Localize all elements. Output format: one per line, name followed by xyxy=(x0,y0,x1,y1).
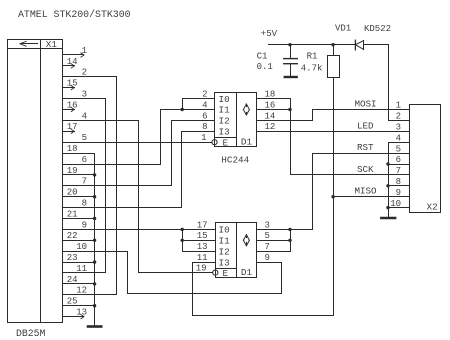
svg-text:22: 22 xyxy=(67,231,78,241)
svg-text:19: 19 xyxy=(196,264,207,274)
svg-text:17: 17 xyxy=(197,220,208,230)
svg-text:15: 15 xyxy=(197,231,208,241)
svg-text:24: 24 xyxy=(67,275,78,285)
svg-text:7: 7 xyxy=(265,242,270,252)
svg-text:8: 8 xyxy=(396,177,401,187)
svg-text:16: 16 xyxy=(265,100,276,110)
svg-text:I0: I0 xyxy=(219,94,230,105)
svg-text:VD1: VD1 xyxy=(335,24,351,34)
svg-text:4: 4 xyxy=(202,100,207,110)
svg-text:20: 20 xyxy=(67,188,78,198)
svg-text:4: 4 xyxy=(396,133,401,143)
svg-text:9: 9 xyxy=(396,188,401,198)
svg-text:I3: I3 xyxy=(219,127,230,138)
svg-text:12: 12 xyxy=(76,286,87,296)
svg-text:KD522: KD522 xyxy=(364,24,391,34)
svg-text:9: 9 xyxy=(82,220,87,230)
svg-text:0.1: 0.1 xyxy=(257,62,273,72)
svg-text:9: 9 xyxy=(265,253,270,263)
svg-text:18: 18 xyxy=(265,90,276,100)
svg-text:7: 7 xyxy=(396,166,401,176)
svg-text:6: 6 xyxy=(82,155,87,165)
svg-text:LED: LED xyxy=(357,120,374,131)
svg-text:1: 1 xyxy=(82,46,87,56)
svg-text:3: 3 xyxy=(82,90,87,100)
svg-text:D1: D1 xyxy=(241,137,253,148)
svg-text:4: 4 xyxy=(82,111,87,121)
svg-text:MISO: MISO xyxy=(354,186,377,197)
svg-text:I2: I2 xyxy=(219,246,230,257)
svg-text:25: 25 xyxy=(67,297,78,307)
svg-text:18: 18 xyxy=(67,144,78,154)
svg-text:21: 21 xyxy=(67,209,78,219)
svg-text:11: 11 xyxy=(76,264,87,274)
svg-text:2: 2 xyxy=(396,112,401,122)
svg-text:19: 19 xyxy=(67,166,78,176)
svg-text:HC244: HC244 xyxy=(221,155,249,166)
svg-text:6: 6 xyxy=(396,155,401,165)
svg-text:16: 16 xyxy=(67,100,78,110)
svg-text:ATMEL STK200/STK300: ATMEL STK200/STK300 xyxy=(18,9,131,20)
svg-text:4.7k: 4.7k xyxy=(301,64,323,74)
svg-text:I3: I3 xyxy=(219,257,230,268)
svg-text:RST: RST xyxy=(357,142,374,153)
svg-text:I2: I2 xyxy=(219,116,230,127)
svg-text:E: E xyxy=(223,137,229,148)
svg-text:DB25M: DB25M xyxy=(16,328,46,339)
svg-text:6: 6 xyxy=(202,111,207,121)
svg-text:5: 5 xyxy=(396,144,401,154)
svg-text:7: 7 xyxy=(82,177,87,187)
svg-text:14: 14 xyxy=(265,111,276,121)
svg-text:3: 3 xyxy=(396,123,401,133)
svg-text:2: 2 xyxy=(82,68,87,78)
svg-text:12: 12 xyxy=(265,122,276,132)
svg-text:I1: I1 xyxy=(219,105,231,116)
svg-text:R1: R1 xyxy=(307,52,318,62)
svg-text:D1: D1 xyxy=(241,267,253,278)
svg-text:13: 13 xyxy=(197,242,208,252)
svg-text:17: 17 xyxy=(67,122,78,132)
svg-text:13: 13 xyxy=(76,308,87,318)
svg-text:11: 11 xyxy=(197,253,208,263)
svg-text:14: 14 xyxy=(67,57,78,67)
svg-text:SCK: SCK xyxy=(357,164,374,175)
svg-text:10: 10 xyxy=(390,199,401,209)
svg-text:+5V: +5V xyxy=(261,29,278,39)
svg-text:5: 5 xyxy=(265,231,270,241)
svg-text:1: 1 xyxy=(201,133,206,143)
svg-text:X1: X1 xyxy=(46,39,58,50)
svg-text:10: 10 xyxy=(76,242,87,252)
svg-text:MOSI: MOSI xyxy=(354,99,376,110)
svg-text:5: 5 xyxy=(82,133,87,143)
svg-text:C1: C1 xyxy=(257,52,268,62)
svg-text:X2: X2 xyxy=(427,202,438,213)
svg-text:23: 23 xyxy=(67,253,78,263)
svg-text:I0: I0 xyxy=(219,225,230,236)
svg-text:3: 3 xyxy=(265,220,270,230)
svg-text:2: 2 xyxy=(202,90,207,100)
svg-text:8: 8 xyxy=(82,199,87,209)
svg-text:E: E xyxy=(223,268,229,279)
svg-text:8: 8 xyxy=(202,122,207,132)
svg-text:1: 1 xyxy=(396,101,401,111)
svg-text:I1: I1 xyxy=(219,236,231,247)
svg-text:15: 15 xyxy=(67,79,78,89)
